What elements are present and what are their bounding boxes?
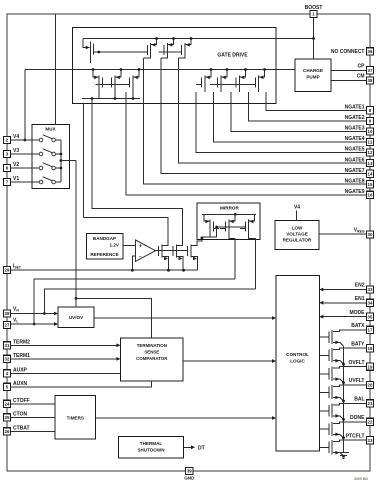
- svg-text:CHARGE: CHARGE: [303, 68, 323, 73]
- svg-text:20: 20: [368, 383, 373, 388]
- wire mirror out1 down: [229, 233, 235, 279]
- svg-text:AUXN: AUXN: [13, 381, 28, 387]
- transistor M5 gate-drive row2: [98, 76, 100, 90]
- wire row2 bottom rail: [82, 98, 140, 100]
- wire CM: [331, 79, 366, 81]
- wire VREG: [319, 233, 366, 235]
- svg-text:V3: V3: [13, 148, 19, 154]
- drain hook M3: [161, 57, 168, 58]
- svg-text:UVFLT: UVFLT: [349, 378, 365, 384]
- wire V4: [11, 139, 39, 141]
- svg-text:37: 37: [368, 68, 373, 73]
- wire NGATE8: [144, 58, 367, 184]
- block GATE DRIVE box: [73, 28, 276, 104]
- transistor Q21 open-drain output BAL: [333, 403, 367, 405]
- svg-text:LOGIC: LOGIC: [290, 359, 305, 364]
- svg-text:PUMP: PUMP: [306, 75, 319, 80]
- pin 30 VREG: [366, 231, 373, 238]
- svg-text:REGULATOR: REGULATOR: [283, 238, 312, 243]
- svg-text:32: 32: [5, 357, 10, 362]
- wire V2: [11, 167, 39, 169]
- block MIRROR: [197, 203, 260, 239]
- wire bandgap to op-amp +: [123, 245, 136, 247]
- switch V3: [39, 152, 43, 156]
- transistor Qc bias NMOS: [190, 245, 192, 258]
- wire NGATE4: [214, 92, 367, 142]
- transistor M1 gate-drive row1: [83, 39, 89, 48]
- drain hook M4: [179, 57, 186, 58]
- wire NGATE5: [196, 92, 366, 153]
- block LOW VOLTAGE REGULATOR: [275, 220, 319, 249]
- wire P2 vertical: [82, 104, 84, 218]
- svg-text:BOOST: BOOST: [305, 5, 323, 11]
- pin 18 BATY: [366, 345, 373, 352]
- wire NGATE3: [231, 92, 366, 131]
- svg-text:TIMERS: TIMERS: [67, 416, 84, 421]
- pin 3 V3: [3, 150, 10, 157]
- drain hook M2: [144, 57, 151, 58]
- svg-text:GND: GND: [184, 476, 195, 481]
- wire P2 to Q_a drain: [83, 218, 168, 244]
- svg-text:AUXP: AUXP: [13, 367, 28, 373]
- transistor Q18 open-drain output BATY: [333, 348, 367, 350]
- svg-text:23: 23: [368, 438, 373, 443]
- svg-text:11: 11: [368, 140, 373, 145]
- svg-text:34: 34: [368, 301, 373, 306]
- svg-text:MUX: MUX: [45, 127, 56, 132]
- wire DT output: [184, 446, 193, 448]
- wire CTOFF: [11, 403, 56, 405]
- wire BOOST pin to charge pump: [313, 18, 315, 60]
- svg-text:12: 12: [368, 150, 373, 155]
- wire NGATE2: [249, 92, 367, 121]
- transistor M10 gate-drive row2: [239, 76, 241, 90]
- svg-text:BATX: BATX: [351, 323, 365, 329]
- op-amp A1: [136, 240, 156, 261]
- pin 9 NGATE2: [366, 117, 373, 124]
- wire EN1: [321, 302, 366, 304]
- wire row2 left gate tie: [96, 84, 131, 86]
- pin 36 NO CONNECT: [366, 48, 373, 55]
- svg-text:35: 35: [368, 314, 373, 319]
- transistor Q20 open-drain output UVFLT: [333, 385, 367, 387]
- wire AUXN: [11, 381, 152, 387]
- svg-text:UV/OV: UV/OV: [69, 315, 84, 320]
- pin 14 NGATE7: [366, 170, 373, 177]
- svg-text:16: 16: [368, 193, 373, 198]
- svg-text:THERMAL: THERMAL: [140, 441, 163, 446]
- svg-text:+: +: [139, 244, 142, 250]
- junction MUX out / comparator feed: [75, 297, 78, 300]
- pin 20 UVFLT: [366, 381, 373, 388]
- svg-text:COMPARATOR: COMPARATOR: [136, 356, 168, 361]
- wire to termination comparator top: [76, 298, 152, 338]
- pin 25 CTON: [3, 414, 10, 421]
- wire comparator output: [183, 360, 274, 362]
- wire row1 source rail: [83, 38, 313, 40]
- wire UV/OV output: [94, 317, 274, 319]
- pin 5 AUXN: [3, 383, 10, 390]
- svg-text:LOW: LOW: [292, 226, 303, 231]
- svg-text:TERMINATION: TERMINATION: [137, 343, 167, 348]
- svg-text:22: 22: [368, 420, 373, 425]
- ground symbol: [338, 453, 349, 459]
- switch V1: [39, 180, 43, 184]
- svg-text:27: 27: [5, 323, 10, 328]
- wire NGATE1: [266, 92, 366, 110]
- transistor M11 gate-drive row2: [258, 76, 260, 90]
- transistor M14 mirror: [248, 220, 250, 234]
- transistor M4 gate-drive row1: [184, 43, 186, 57]
- wire NGATE6: [179, 58, 367, 163]
- pin 32 TERM1: [3, 355, 10, 362]
- pin 12 NGATE5: [366, 149, 373, 156]
- wire row1 gate tie 2: [164, 51, 182, 53]
- transistor M3 gate-drive row1: [167, 43, 169, 57]
- svg-text:19: 19: [368, 364, 373, 369]
- wire MODE: [321, 316, 366, 318]
- svg-text:CTON: CTON: [13, 411, 27, 417]
- svg-text:REFERENCE: REFERENCE: [90, 252, 118, 257]
- svg-text:V1: V1: [13, 176, 19, 182]
- svg-text:CM: CM: [357, 74, 365, 80]
- pin 33 EN2: [366, 286, 373, 293]
- wire MUX output bus: [60, 140, 62, 182]
- wire feedback to op-amp minus: [132, 256, 135, 270]
- svg-text:25: 25: [5, 415, 10, 420]
- pin 4 AUXP: [3, 370, 10, 377]
- pin 24 CTOFF: [3, 400, 10, 407]
- svg-text:1.2V: 1.2V: [110, 243, 120, 248]
- wire V3: [11, 153, 39, 155]
- svg-text:MIRROR: MIRROR: [220, 205, 239, 210]
- switch V4: [39, 138, 43, 142]
- svg-text:CP: CP: [358, 63, 366, 69]
- junction row1 gate: [97, 51, 100, 54]
- svg-text:MODE: MODE: [350, 310, 366, 316]
- svg-text:SHUTDOWN: SHUTDOWN: [137, 448, 165, 453]
- pin 29 ISET: [3, 266, 10, 273]
- block TERMINATION SENSE COMPARATOR: [120, 338, 183, 381]
- pin 34 EN1: [366, 299, 373, 306]
- svg-text:15: 15: [368, 182, 373, 187]
- pin 13 NGATE6: [366, 160, 373, 167]
- wire NGATE7: [161, 58, 366, 174]
- switch V2: [39, 166, 43, 170]
- svg-text:NGATE7: NGATE7: [345, 168, 365, 174]
- pin 23 PTCFLT: [366, 437, 373, 444]
- wire EN2: [321, 289, 366, 291]
- block UV/OV: [58, 307, 94, 328]
- svg-text:NGATE4: NGATE4: [345, 136, 365, 142]
- pin 10 NGATE3: [366, 128, 373, 135]
- block BANDGAP REFERENCE: [87, 234, 124, 260]
- svg-text:NGATE2: NGATE2: [345, 115, 365, 121]
- wire row2 right gate tie: [210, 84, 252, 86]
- svg-text:TERM1: TERM1: [13, 353, 30, 359]
- wire mirror top rail: [202, 213, 256, 215]
- wire V1: [11, 181, 39, 183]
- svg-text:39: 39: [187, 469, 192, 474]
- transistor M9 gate-drive row2: [220, 76, 222, 90]
- pin 7 V1: [3, 178, 10, 185]
- svg-text:13: 13: [368, 161, 373, 166]
- svg-text:EN2: EN2: [355, 283, 365, 289]
- wire AUXP: [11, 372, 121, 374]
- pin 16 NGATE9: [366, 191, 373, 198]
- transistor M6 gate-drive row2: [114, 76, 116, 90]
- wire mirror out2 to VH: [44, 289, 255, 314]
- svg-text:OVFLT: OVFLT: [348, 360, 364, 366]
- svg-text:NGATE6: NGATE6: [345, 157, 365, 163]
- pin 26 CTBAT: [3, 428, 10, 435]
- svg-text:18: 18: [368, 346, 373, 351]
- block CHARGE PUMP: [295, 59, 331, 92]
- pin 31 TERM2: [3, 342, 10, 349]
- pin 35 MODE: [366, 313, 373, 320]
- svg-text:33: 33: [368, 287, 373, 292]
- svg-text:24: 24: [5, 402, 10, 407]
- wire CTBAT: [11, 430, 56, 432]
- svg-text:BANDGAP: BANDGAP: [93, 236, 116, 241]
- pin 15 NGATE8: [366, 181, 373, 188]
- pin 1 BOOST: [310, 10, 317, 17]
- wire top vertical to MUX top: [55, 14, 57, 125]
- svg-text:29: 29: [5, 268, 10, 273]
- svg-text:DONE: DONE: [350, 415, 365, 421]
- wire VH: [11, 313, 56, 315]
- wire NGATE9: [126, 92, 366, 195]
- wire P1 to Q_b drain: [92, 99, 182, 244]
- wire MUX output: [61, 160, 76, 162]
- transistor M12 mirror: [209, 220, 211, 234]
- svg-text:17: 17: [368, 328, 373, 333]
- svg-text:NGATE1: NGATE1: [345, 105, 365, 111]
- svg-text:DT: DT: [198, 445, 205, 451]
- transistor Qa bias NMOS: [161, 245, 163, 258]
- transistor M7 gate-drive row2: [132, 76, 134, 90]
- transistor Q22 open-drain output DONE: [333, 422, 367, 424]
- wire Q_c drain to mirror: [191, 238, 202, 246]
- wire V4 riser: [24, 70, 26, 141]
- svg-text:CTBAT: CTBAT: [13, 425, 30, 431]
- wire CTON: [11, 416, 56, 418]
- svg-text:BATY: BATY: [351, 341, 365, 347]
- svg-text:−: −: [139, 254, 142, 260]
- block CONTROL LOGIC: [276, 276, 319, 451]
- junction row2 bottom rail / P1: [91, 97, 94, 100]
- svg-text:CTOFF: CTOFF: [13, 398, 30, 404]
- wire mirror gate tie: [217, 226, 246, 228]
- svg-text:26: 26: [5, 429, 10, 434]
- svg-text:NO CONNECT: NO CONNECT: [331, 49, 365, 55]
- svg-text:NGATE5: NGATE5: [345, 147, 365, 153]
- wire mirror diode link: [210, 227, 216, 237]
- wire op-amp output / trio gate bus: [156, 250, 188, 252]
- svg-text:NGATE3: NGATE3: [345, 126, 365, 132]
- block TIMERS: [55, 396, 95, 440]
- transistor Q23 open-drain output PTCFLT: [333, 440, 367, 442]
- svg-text:CONTROL: CONTROL: [286, 352, 309, 357]
- svg-text:SENSE: SENSE: [144, 350, 159, 355]
- svg-text:28: 28: [5, 311, 10, 316]
- svg-text:21: 21: [368, 401, 373, 406]
- svg-text:EN1: EN1: [355, 296, 365, 302]
- svg-text:GATE DRIVE: GATE DRIVE: [217, 52, 248, 58]
- wire TERM2: [11, 344, 119, 346]
- pin 22 DONE: [366, 418, 373, 425]
- pin 2 V4: [3, 136, 10, 143]
- transistor Qb bias NMOS: [176, 245, 178, 258]
- svg-text:V4: V4: [13, 134, 19, 140]
- wire TERM1: [11, 358, 119, 360]
- svg-text:PTCFLT: PTCFLT: [346, 433, 365, 439]
- wire CP: [331, 69, 366, 71]
- svg-text:14: 14: [368, 171, 373, 176]
- wire VL: [11, 323, 56, 325]
- svg-text:VOLTAGE: VOLTAGE: [286, 232, 308, 237]
- block MUX: [32, 125, 69, 189]
- junction mirror input: [201, 237, 204, 240]
- pin 38 CM: [366, 77, 373, 84]
- svg-text:31: 31: [5, 343, 10, 348]
- block THERMAL SHUTDOWN: [119, 437, 184, 459]
- pin 28 VH: [3, 310, 10, 317]
- pin 11 NGATE4: [366, 138, 373, 145]
- junction BOOST / row1 rail: [312, 37, 315, 40]
- wire V4 to regulator: [296, 211, 298, 221]
- wire V4 row2 source rail to charge pump: [25, 69, 295, 71]
- svg-text:10: 10: [368, 129, 373, 134]
- transistor Q19 open-drain output OVFLT: [333, 367, 367, 369]
- svg-text:NGATE9: NGATE9: [345, 189, 365, 195]
- svg-text:NGATE8: NGATE8: [345, 178, 365, 184]
- svg-text:BAL: BAL: [354, 397, 364, 403]
- wire timers output: [96, 417, 275, 419]
- pin 21 BAL: [366, 400, 373, 407]
- pin 19 OVFLT: [366, 363, 373, 370]
- svg-text:38: 38: [368, 78, 373, 83]
- wire mirror out1 to VL: [34, 279, 235, 324]
- wire mirror out2 down: [249, 233, 256, 289]
- svg-text:30: 30: [368, 232, 373, 237]
- transistor M8 gate-drive row2: [204, 76, 206, 90]
- junction V4 pin wire: [23, 139, 26, 142]
- pin 37 CP: [366, 67, 373, 74]
- transistor Q17 open-drain output BATX: [333, 330, 367, 332]
- transistor M13 mirror: [228, 220, 230, 234]
- svg-text:3305 BD: 3305 BD: [354, 477, 369, 481]
- wire row1 gate tie: [94, 51, 147, 53]
- pin 39 GND: [186, 467, 193, 474]
- wire ISET rail: [11, 269, 198, 271]
- wire MUX output down to UV/OV: [75, 161, 77, 307]
- pin 8 NGATE1: [366, 107, 373, 114]
- svg-text:TERM2: TERM2: [13, 339, 30, 345]
- svg-text:36: 36: [368, 49, 373, 54]
- junction feedback: [131, 269, 134, 272]
- pin 27 VL: [3, 321, 10, 328]
- svg-text:V4: V4: [294, 205, 300, 211]
- pin 17 BATX: [366, 326, 373, 333]
- transistor M2 gate-drive row1: [150, 43, 152, 57]
- pin 6 V2: [3, 164, 10, 171]
- svg-text:V2: V2: [13, 162, 19, 168]
- output source rail: [343, 346, 345, 452]
